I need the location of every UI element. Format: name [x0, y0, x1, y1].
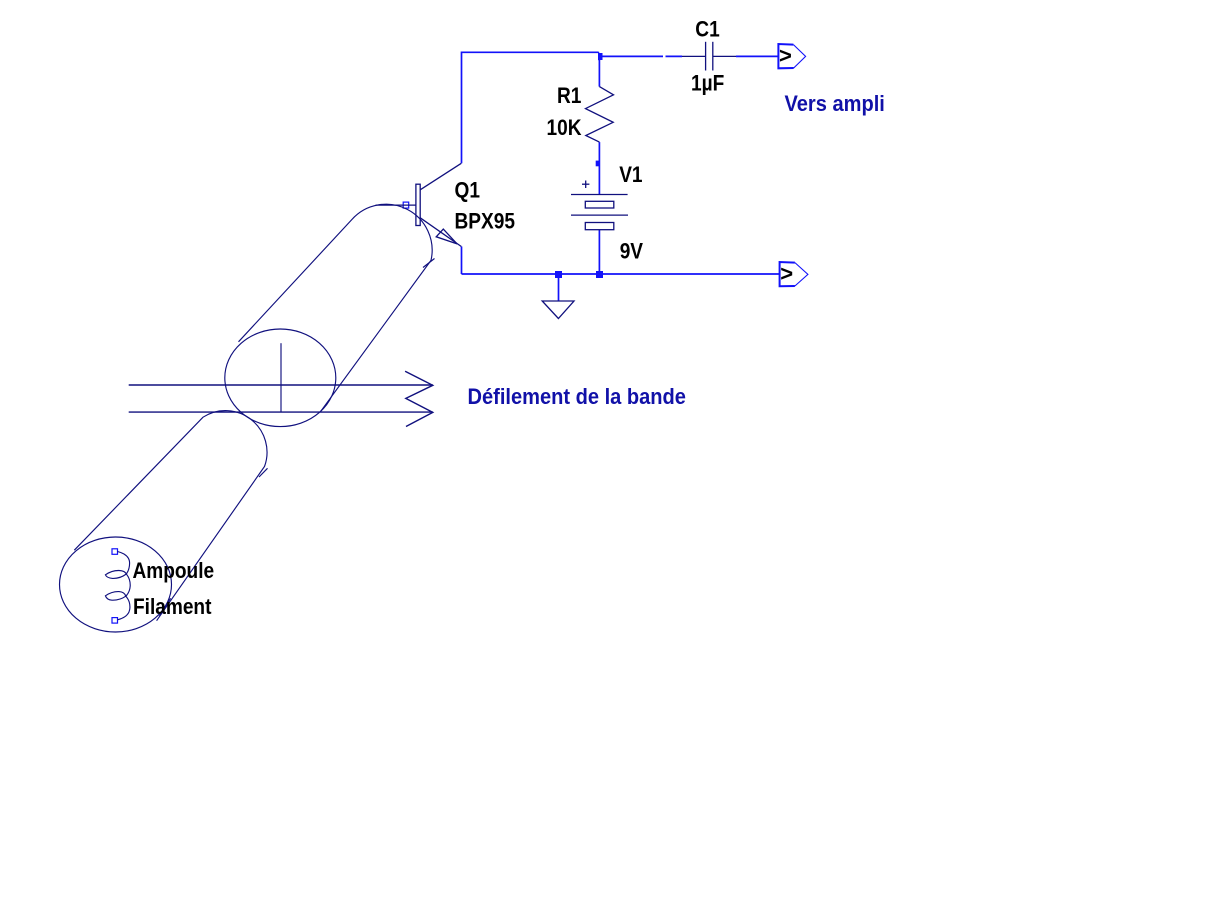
- svg-text:9V: 9V: [620, 239, 644, 264]
- svg-text:Défilement de la bande: Défilement de la bande: [468, 385, 686, 409]
- svg-text:1µF: 1µF: [691, 71, 724, 96]
- svg-text:>: >: [779, 43, 792, 68]
- svg-text:Ampoule: Ampoule: [133, 559, 215, 584]
- svg-text:Vers ampli: Vers ampli: [785, 92, 885, 116]
- svg-text:BPX95: BPX95: [455, 209, 515, 234]
- svg-text:Q1: Q1: [455, 178, 480, 203]
- svg-text:Filament: Filament: [133, 595, 212, 620]
- svg-text:V1: V1: [619, 163, 642, 188]
- svg-text:10K: 10K: [547, 116, 582, 141]
- svg-text:R1: R1: [557, 84, 581, 109]
- svg-text:C1: C1: [695, 17, 719, 42]
- svg-text:>: >: [780, 261, 793, 286]
